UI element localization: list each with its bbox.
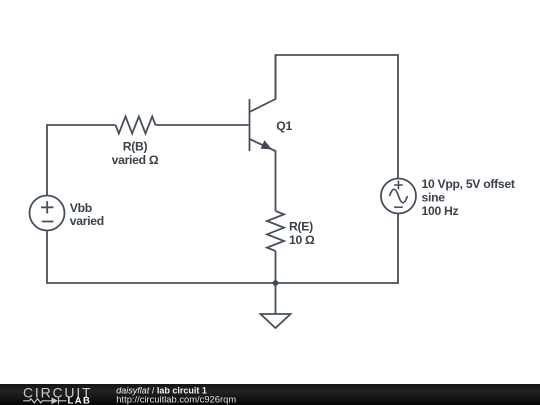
resistor R(E) xyxy=(267,211,284,251)
wire Vbb top lead to R(B) xyxy=(47,125,116,196)
svg-text:100 Hz: 100 Hz xyxy=(422,204,459,218)
svg-text:varied: varied xyxy=(70,214,104,228)
svg-text:R(E): R(E) xyxy=(289,219,313,233)
voltage source V1 Vbb circle xyxy=(30,196,65,231)
ground symbol xyxy=(261,314,291,328)
svg-text:Vbb: Vbb xyxy=(70,201,92,215)
wire base R(B)-to-Q1 xyxy=(156,124,249,126)
footer logo diode xyxy=(52,397,59,404)
svg-text:sine: sine xyxy=(422,191,446,205)
V2 minus sign xyxy=(394,206,403,208)
node junction dot emitter/ground/rail xyxy=(273,280,279,286)
svg-text:varied Ω: varied Ω xyxy=(112,153,159,167)
svg-text:Q1: Q1 xyxy=(276,119,292,133)
wire collector net Q1-to-V2 top xyxy=(276,55,399,179)
svg-text:R(B): R(B) xyxy=(123,139,148,153)
footer logo zigzag resistor xyxy=(23,399,51,403)
wire ground stub xyxy=(275,283,277,314)
svg-text:10 Ω: 10 Ω xyxy=(289,233,315,247)
svg-text:10 Vpp, 5V offset: 10 Vpp, 5V offset xyxy=(422,177,515,191)
transistor Q1 body bar xyxy=(249,99,251,151)
V1 plus sign xyxy=(41,201,53,213)
transistor Q1 emitter arrow xyxy=(261,140,272,149)
V1 minus sign xyxy=(42,221,54,223)
footer bar xyxy=(0,384,540,405)
svg-text:LAB: LAB xyxy=(68,396,92,405)
voltage source V2 circle xyxy=(381,179,416,214)
wire R(E) bottom lead xyxy=(275,251,277,283)
wire bottom rail V1-to-V2 xyxy=(47,214,398,284)
transistor Q1 emitter xyxy=(250,139,276,211)
V2 plus sign xyxy=(394,181,403,190)
transistor Q1 collector xyxy=(250,55,276,112)
resistor R(B) xyxy=(116,117,156,134)
V2 sine wave xyxy=(390,189,408,203)
svg-text:http://circuitlab.com/c926rqm: http://circuitlab.com/c926rqm xyxy=(116,393,236,404)
